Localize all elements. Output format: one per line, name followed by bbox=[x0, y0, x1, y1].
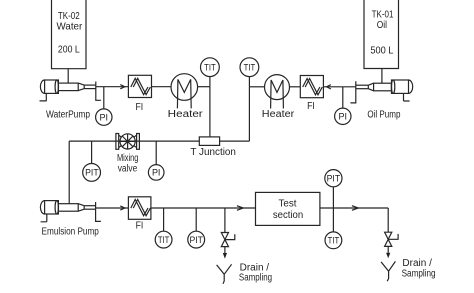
svg-text:PI: PI bbox=[100, 112, 109, 122]
svg-text:PIT: PIT bbox=[189, 235, 203, 245]
pipe anchor emulsion bbox=[96, 202, 101, 221]
flow arrow bbox=[120, 85, 125, 89]
drain valve 2 bbox=[385, 208, 399, 258]
wire TK-01 outlet bbox=[381, 69, 383, 84]
wire FI to heater bbox=[152, 86, 172, 88]
pump Emulsion Pump bbox=[40, 201, 99, 238]
instrument PI water bbox=[96, 87, 112, 126]
svg-text:PI: PI bbox=[152, 168, 161, 178]
pipe anchor left bbox=[96, 82, 101, 101]
wire mixing line bbox=[69, 140, 199, 142]
wire water pump to FI bbox=[96, 86, 129, 88]
svg-text:FI: FI bbox=[135, 102, 143, 113]
drain valve 1 bbox=[221, 208, 235, 259]
instrument PIT emulsion bbox=[188, 208, 205, 248]
wire FI to test section bbox=[151, 207, 256, 209]
svg-text:TK-01: TK-01 bbox=[372, 9, 394, 20]
instrument PI oil bbox=[335, 87, 351, 125]
svg-text:Water: Water bbox=[57, 21, 83, 32]
mixing valve bbox=[116, 134, 140, 175]
svg-text:TIT: TIT bbox=[328, 236, 340, 246]
test section bbox=[256, 192, 320, 225]
flow arrow bbox=[352, 206, 358, 211]
flow arrow bbox=[120, 206, 125, 210]
svg-text:valve: valve bbox=[118, 163, 138, 174]
wire test section to drain 2 bbox=[320, 207, 388, 209]
funnel drain 2 bbox=[381, 261, 395, 281]
instrument PIT outlet bbox=[325, 170, 342, 208]
wire T junction to oil riser bbox=[220, 140, 250, 142]
svg-text:200 L: 200 L bbox=[58, 45, 80, 56]
svg-text:Heater: Heater bbox=[262, 109, 295, 120]
svg-text:Heater: Heater bbox=[168, 109, 204, 120]
flow arrow left bbox=[327, 85, 331, 89]
svg-text:FI: FI bbox=[307, 101, 315, 112]
svg-text:section: section bbox=[273, 210, 303, 221]
svg-text:Emulsion Pump: Emulsion Pump bbox=[42, 227, 100, 238]
pipe anchor right bbox=[350, 81, 355, 103]
heater water bbox=[168, 74, 204, 121]
wire node to oil heater bbox=[249, 86, 264, 88]
svg-text:WaterPump: WaterPump bbox=[46, 109, 90, 120]
svg-text:Drain /: Drain / bbox=[402, 258, 432, 269]
instrument TIT outlet bbox=[325, 208, 342, 249]
pump Oil Pump bbox=[356, 80, 413, 120]
svg-text:Sampling: Sampling bbox=[239, 273, 272, 284]
wire node to T junction bbox=[209, 87, 211, 137]
svg-text:Sampling: Sampling bbox=[402, 269, 436, 280]
instrument PI mix bbox=[148, 141, 164, 180]
svg-text:PI: PI bbox=[339, 112, 348, 122]
svg-text:TIT: TIT bbox=[204, 62, 216, 72]
instrument PIT mix bbox=[83, 141, 101, 181]
instrument TIT oil bbox=[240, 58, 259, 87]
instrument TIT emulsion bbox=[155, 208, 172, 248]
wire FI to oil pump bbox=[323, 86, 355, 88]
svg-text:PIT: PIT bbox=[327, 173, 341, 183]
wire TK-02 outlet bbox=[67, 69, 69, 84]
instrument TIT water bbox=[201, 58, 220, 87]
svg-text:Test: Test bbox=[279, 199, 297, 210]
svg-text:500 L: 500 L bbox=[370, 45, 393, 56]
flow indicator FI emulsion bbox=[128, 197, 151, 232]
flow arrow to test section bbox=[237, 206, 243, 211]
svg-text:TIT: TIT bbox=[244, 62, 256, 72]
svg-text:Oil Pump: Oil Pump bbox=[367, 109, 401, 120]
svg-text:FI: FI bbox=[136, 220, 144, 231]
label drain 2 bbox=[402, 258, 436, 279]
tank TK-01 bbox=[364, 0, 399, 69]
T junction box bbox=[190, 137, 236, 158]
wire heater to node bbox=[198, 86, 210, 88]
wire emulsion pump to FI bbox=[96, 207, 129, 209]
svg-text:T Junction: T Junction bbox=[190, 147, 236, 158]
wire down to emulsion pump bbox=[68, 141, 70, 204]
heater oil bbox=[262, 75, 295, 121]
flow indicator FI water bbox=[128, 75, 151, 113]
pump WaterPump bbox=[40, 80, 96, 120]
flow indicator FI oil bbox=[300, 76, 323, 112]
tank TK-02 bbox=[52, 0, 87, 69]
svg-text:Oil: Oil bbox=[377, 20, 387, 31]
funnel drain 1 bbox=[217, 264, 232, 284]
svg-text:TIT: TIT bbox=[158, 235, 170, 245]
label drain 1 bbox=[239, 263, 272, 284]
svg-text:PIT: PIT bbox=[85, 168, 99, 178]
wire heater to FI oil bbox=[290, 86, 301, 88]
